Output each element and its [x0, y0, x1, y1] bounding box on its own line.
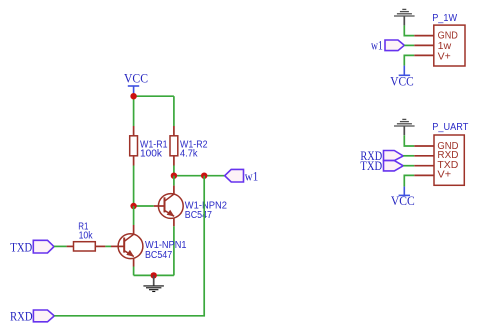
svg-text:VCC: VCC — [390, 74, 413, 88]
port TXD — [10, 240, 54, 254]
wire node B to node C to w1 port — [174, 175, 225, 177]
wire VCC to V+ pin of P_1W — [404, 55, 414, 65]
wire emitter rail — [134, 274, 174, 276]
svg-text:10k: 10k — [79, 230, 94, 241]
node C junction — [201, 173, 207, 179]
wire TXD to R1 — [54, 245, 67, 247]
svg-text:TXD: TXD — [10, 240, 32, 254]
VCC supply symbol (P_UART) — [391, 187, 415, 209]
svg-text:1w: 1w — [438, 41, 452, 52]
svg-text:4.7k: 4.7k — [180, 148, 198, 159]
resistor W1-R1 100k — [130, 126, 168, 166]
svg-text:w1: w1 — [371, 39, 383, 53]
port RXD (P_UART) — [360, 149, 403, 163]
pin RXD of P_UART — [414, 155, 434, 157]
svg-text:VCC: VCC — [124, 72, 148, 86]
wire RXD to node C — [54, 176, 204, 316]
wire W1-R2 bottom to node B — [173, 166, 175, 176]
transistor Q W1-NPN1 BC547 — [111, 225, 187, 267]
wire VCC to V+ pin of P_UART — [404, 175, 414, 186]
transistor Q W1-NPN2 BC547 — [154, 186, 228, 227]
wire ground to GND pin of P_UART — [404, 135, 414, 146]
svg-text:P_1W: P_1W — [432, 13, 457, 24]
svg-text:TXD: TXD — [360, 159, 382, 173]
wire RXD port to RXD pin — [403, 155, 414, 157]
wire node A to NPN2 base — [134, 205, 154, 207]
VCC supply symbol (P_1W) — [390, 66, 413, 89]
pin V+ of P_UART — [414, 174, 434, 176]
connector U P_1W — [432, 13, 465, 66]
svg-text:BC547: BC547 — [145, 250, 173, 261]
pin TXD of P_UART — [414, 165, 434, 167]
port RXD — [10, 310, 54, 324]
wire node A down to NPN1 collector — [133, 206, 135, 225]
node VCC junction — [130, 93, 136, 99]
pin V+ of P_1W — [414, 54, 434, 56]
port w1 (left circuit) — [225, 169, 259, 183]
wire node B down to NPN2 collector — [173, 176, 175, 186]
svg-text:V+: V+ — [437, 170, 451, 181]
pin 1w of P_1W — [414, 44, 434, 46]
earth ground above P_UART — [394, 119, 415, 135]
node A junction — [130, 203, 136, 209]
resistor R1 10k — [67, 222, 106, 252]
wire VCC top rail — [134, 95, 174, 97]
wire NPN2 emitter down — [173, 226, 175, 275]
port w1 (P_1W) — [371, 39, 404, 53]
connector U P_UART — [432, 122, 468, 185]
wire w1 port to 1w pin — [404, 44, 414, 46]
port TXD (P_UART) — [360, 159, 403, 173]
wire NPN1 emitter down — [133, 267, 135, 276]
svg-text:P_UART: P_UART — [432, 122, 468, 133]
ground (left circuit) — [143, 275, 164, 291]
wire TXD port to TXD pin — [403, 165, 414, 167]
pin GND of P_UART — [414, 145, 434, 147]
wire ground to GND pin of P_1W — [404, 25, 414, 35]
svg-text:BC547: BC547 — [185, 210, 213, 221]
svg-text:w1: w1 — [245, 170, 258, 184]
pin GND of P_1W — [414, 35, 434, 37]
VCC supply symbol (left circuit) — [124, 72, 148, 96]
resistor W1-R2 4.7k — [170, 126, 208, 166]
node D junction — [151, 272, 157, 278]
wire down to W1-R1 — [133, 96, 135, 126]
wire W1-R1 bottom to node A — [133, 166, 135, 207]
wire down to W1-R2 — [173, 96, 175, 126]
svg-text:RXD: RXD — [10, 310, 33, 324]
wire R1 to NPN1 base — [105, 245, 111, 247]
node B junction — [171, 173, 177, 179]
earth ground above P_1W — [394, 9, 415, 25]
svg-text:VCC: VCC — [391, 194, 415, 208]
svg-text:V+: V+ — [438, 51, 451, 62]
svg-text:100k: 100k — [140, 148, 163, 159]
